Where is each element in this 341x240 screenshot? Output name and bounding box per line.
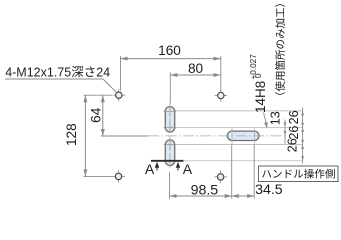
slot upper cross top	[164, 106, 176, 118]
dimension 98.5 line	[170, 194, 232, 198]
dimension 160 line	[121, 57, 221, 61]
center line horizontal through slot row	[148, 135, 285, 137]
slot hole upper (vertical obround)	[165, 107, 174, 133]
svg-text:160: 160	[158, 43, 181, 58]
section label A left	[145, 161, 155, 177]
leader underline for M12 note	[5, 79, 116, 92]
dimension 80 text	[188, 61, 204, 76]
svg-text:0: 0	[254, 73, 263, 78]
dimension 128 text	[64, 123, 79, 146]
leader arrow from 14H8	[264, 113, 268, 129]
svg-text:4-M12x1.75: 4-M12x1.75	[5, 65, 71, 79]
slot right centerline left arc	[231, 128, 233, 144]
dimension 13 line	[284, 120, 287, 144]
section arrow right	[176, 162, 180, 171]
dimension 64 line	[101, 95, 105, 136]
extension line left of 160	[120, 56, 122, 91]
slot hole lower (vertical obround)	[165, 140, 174, 166]
section line A-A	[151, 160, 183, 162]
text tolerance +0.027	[249, 54, 258, 80]
svg-text:34.5: 34.5	[255, 182, 283, 198]
text tolerance 0	[254, 73, 263, 78]
section label A right	[183, 161, 193, 177]
text 14H8	[253, 81, 268, 113]
extension line slot3 right center down	[253, 145, 255, 199]
hole row line R3	[164, 143, 303, 145]
svg-text:26: 26	[287, 110, 301, 124]
svg-text:128: 128	[64, 123, 79, 146]
svg-text:80: 80	[188, 61, 204, 76]
dimension 160 text	[158, 43, 181, 58]
dimension 80 line	[170, 73, 220, 77]
extension line top hole row left	[84, 94, 113, 96]
hole row line R1	[164, 110, 303, 112]
chain dimension line 26x3	[301, 108, 304, 164]
extension line for 80 at slot centerline	[169, 73, 171, 104]
dimension 34.5 text	[255, 182, 283, 198]
svg-text:14H8: 14H8	[253, 81, 268, 113]
dimension 98.5 text	[191, 183, 219, 199]
extension line slot3 left center down	[231, 145, 233, 199]
slot hole right (horizontal obround 14H8)	[227, 131, 259, 140]
dimension 26 text first	[287, 110, 301, 124]
slot lower cross top	[164, 139, 176, 151]
svg-text:A: A	[145, 161, 155, 177]
dimension 26 text second	[287, 126, 301, 140]
extension line slot centerline down	[169, 172, 171, 199]
note kanji fukasa (depth)	[72, 66, 95, 77]
extension line right of 160/80	[220, 56, 222, 91]
center line vertical through slots	[169, 101, 171, 171]
M12 hole top-right	[215, 89, 228, 102]
slot right centerline right arc	[253, 128, 255, 144]
M12 hole top-left	[113, 89, 126, 102]
extension line 64 bottom to centerline row	[101, 135, 148, 137]
M12 hole bottom-right	[214, 171, 227, 184]
dimension 26 text third	[285, 138, 299, 152]
svg-text:24: 24	[96, 65, 110, 79]
svg-text:13: 13	[269, 111, 283, 125]
hole row line R2	[164, 126, 303, 128]
label box handle side	[259, 166, 339, 182]
M12 hole bottom-left	[112, 170, 125, 183]
svg-text:26: 26	[285, 138, 299, 152]
svg-text:98.5: 98.5	[191, 183, 219, 199]
svg-text:64: 64	[89, 107, 104, 123]
dimension 13 text	[269, 111, 283, 125]
svg-text:26: 26	[287, 126, 301, 140]
section arrow left	[155, 162, 159, 171]
dimension 64 text	[89, 107, 104, 123]
dimension 34.5 line	[232, 194, 255, 198]
label text handle side	[262, 169, 335, 179]
slot upper cross bottom	[164, 122, 176, 134]
text (machined only where used)	[275, 4, 285, 94]
svg-text:A: A	[183, 161, 193, 177]
note 4-M12x1.75 depth 24 (latin part)	[5, 65, 110, 79]
hole row line R4	[183, 160, 302, 162]
extension line bottom hole row left	[84, 175, 113, 177]
dimension 128 line	[83, 95, 87, 176]
